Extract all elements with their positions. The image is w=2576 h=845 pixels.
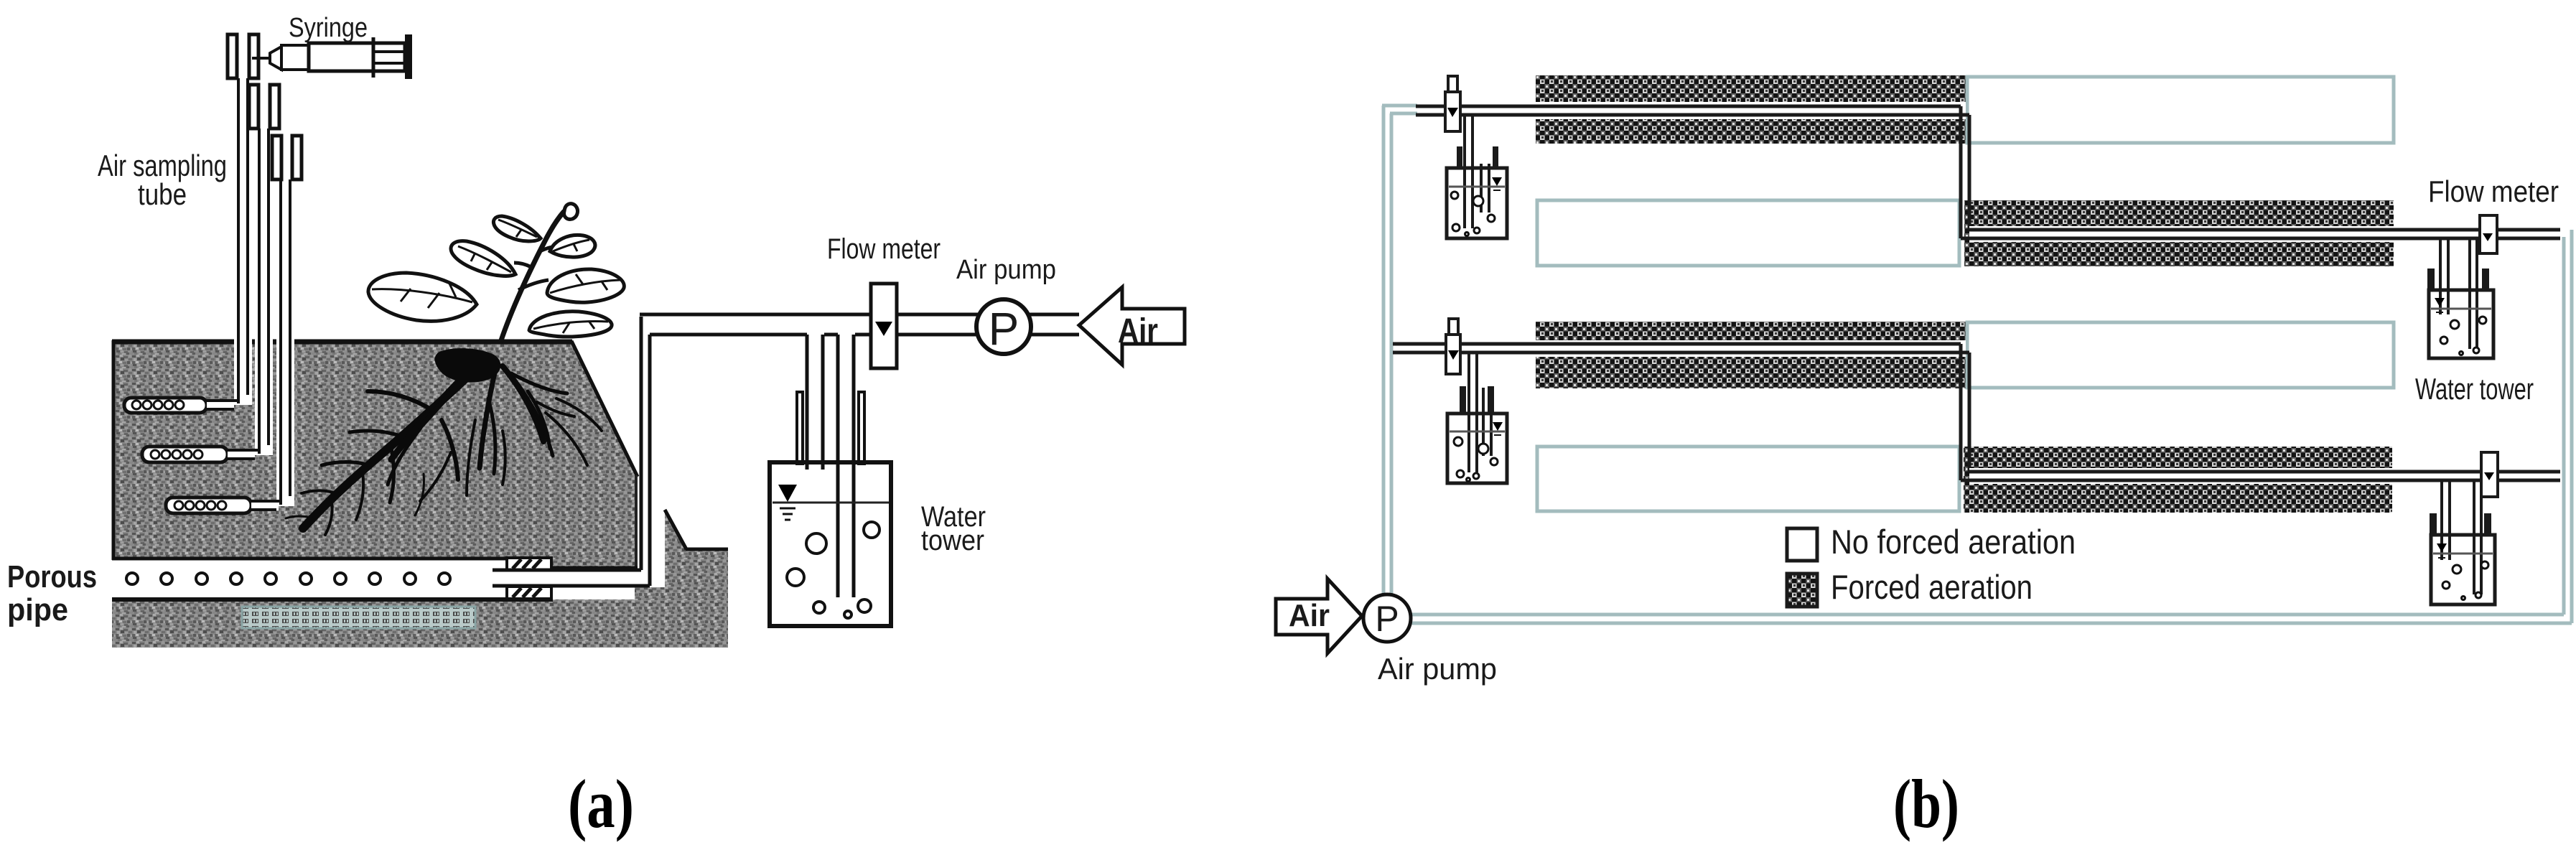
svg-text:Air pump: Air pump xyxy=(1378,652,1497,686)
air inlet arrow (b) xyxy=(1276,579,1362,653)
teal manifold left vertical xyxy=(1383,106,1391,595)
svg-text:Air pump: Air pump xyxy=(956,255,1056,285)
air pump (a) xyxy=(976,299,1031,355)
lower soil band with right block xyxy=(112,510,728,648)
sampling probe 3 xyxy=(166,498,281,513)
svg-text:(b): (b) xyxy=(1893,765,1959,842)
water tower 2 xyxy=(2429,290,2493,358)
tower3 bubbles xyxy=(1454,437,1498,482)
air sampling tube 2 walls xyxy=(259,129,269,454)
roots xyxy=(286,363,602,535)
svg-text:P: P xyxy=(1375,599,1399,639)
water tower neck collars (a) xyxy=(797,392,864,464)
svg-text:Flow meter: Flow meter xyxy=(2428,174,2559,208)
leaf second left xyxy=(451,241,515,276)
buried porous pipe (teal hatched) xyxy=(242,607,475,628)
svg-text:Syringe: Syringe xyxy=(289,13,368,43)
svg-text:Air: Air xyxy=(1289,598,1330,633)
air pump (b) xyxy=(1363,594,1411,642)
teal manifold bottom horizontal xyxy=(1411,615,2572,623)
threaded fitting lower xyxy=(507,587,551,599)
riser pipe walls xyxy=(641,317,650,586)
row3 pipe white underlay xyxy=(1536,340,1966,357)
legend no forced aeration xyxy=(1787,523,2076,561)
tube 1 cap xyxy=(228,34,258,78)
soil mound xyxy=(112,340,638,568)
outlet pipe from porous pipe (horizontal walls) xyxy=(493,570,650,586)
svg-text:tower: tower xyxy=(921,525,984,556)
air sampling tube 1 (white halo) xyxy=(234,78,252,405)
svg-text:Flow meter: Flow meter xyxy=(827,233,941,265)
tube 2 cap xyxy=(249,85,279,129)
leaf upper right xyxy=(550,235,595,257)
tube 3 cap xyxy=(272,136,302,179)
tube drop deep into water tower xyxy=(838,335,854,597)
flow meter 1 (b) xyxy=(2480,215,2497,253)
teal manifold top-left corner xyxy=(1382,106,1417,113)
row2 pipe xyxy=(1961,230,2560,238)
flow meter 2 (b) xyxy=(2481,452,2498,497)
svg-text:Porous: Porous xyxy=(7,559,97,594)
svg-text:P: P xyxy=(989,303,1019,355)
tower3 collars xyxy=(1460,386,1494,414)
svg-text:No forced aeration: No forced aeration xyxy=(1831,523,2076,561)
svg-text:tube: tube xyxy=(138,177,187,211)
row4 pipe white underlay xyxy=(1969,468,2392,484)
tower2 bubbles xyxy=(2440,317,2486,355)
tower2 collars xyxy=(2427,269,2489,290)
bed row2 forced aeration (right) xyxy=(1964,200,2394,266)
row1 pipe xyxy=(1416,106,1969,115)
air sampling tube 2 (white halo) xyxy=(255,129,273,455)
main horizontal pipe to pump xyxy=(640,314,1079,335)
row4 pipe xyxy=(1961,472,2560,480)
tower1 collars xyxy=(1457,146,1498,169)
bed row3 forced aeration (left) xyxy=(1536,322,1966,388)
plant stem xyxy=(500,211,564,342)
porous pipe white band holes xyxy=(126,573,450,584)
air sampling tube 3 (white halo) xyxy=(276,179,294,506)
air sampling tube 3 walls xyxy=(281,179,290,505)
svg-text:Water tower: Water tower xyxy=(2415,372,2534,406)
syringe xyxy=(252,34,412,79)
sampling probe 2 xyxy=(142,447,259,462)
threaded fitting upper xyxy=(507,558,551,570)
tower1 drop tube xyxy=(1465,115,1489,228)
bed row3 no aeration (right) xyxy=(1967,322,2394,388)
tower4 drop tube xyxy=(2442,480,2481,594)
leaf big right xyxy=(547,269,624,302)
svg-text:Forced aeration: Forced aeration xyxy=(1831,568,2033,606)
step down row1-row2 xyxy=(1961,106,1969,238)
leaf lower right xyxy=(529,312,612,337)
tower1 bubbles xyxy=(1451,192,1495,236)
tower2 drop tube xyxy=(2440,238,2477,349)
air inlet arrow (a) xyxy=(1079,287,1185,365)
root crown xyxy=(435,348,501,383)
svg-text:(a): (a) xyxy=(568,765,634,842)
sampling probe 1 xyxy=(124,398,238,413)
bed row2 no aeration (left) xyxy=(1537,200,1959,266)
teal manifold right vertical xyxy=(2564,230,2572,623)
bed row4 no aeration (left) xyxy=(1537,447,1959,511)
plant bud xyxy=(564,204,578,220)
leaf big left xyxy=(368,273,477,321)
water tower 4 xyxy=(2431,535,2495,604)
tube drop short into water tower xyxy=(807,335,823,470)
row2 pipe white underlay xyxy=(1969,226,2394,242)
water tower 3 xyxy=(1447,414,1507,483)
bed row1 forced aeration (left) xyxy=(1536,75,1966,144)
valve row1 xyxy=(1445,76,1460,131)
svg-text:pipe: pipe xyxy=(7,592,68,627)
flow meter (a) xyxy=(871,284,897,368)
svg-text:Air: Air xyxy=(1118,312,1158,350)
bed row1 no aeration (right) xyxy=(1967,77,2394,143)
row1 pipe white underlay xyxy=(1536,102,1966,119)
legend forced aeration xyxy=(1787,568,2033,607)
tower4 bubbles xyxy=(2442,561,2488,600)
bed row4 forced aeration (right) xyxy=(1964,447,2392,513)
tower4 collars xyxy=(2430,513,2491,535)
water tower (a) xyxy=(770,462,891,626)
leaf top small xyxy=(493,216,541,241)
air sampling tube 1 walls xyxy=(238,78,248,403)
tower3 drop tube xyxy=(1469,353,1491,472)
valve row3 xyxy=(1446,319,1460,374)
water tower 1 xyxy=(1447,168,1507,238)
step down row3-row4 xyxy=(1961,344,1969,480)
row3 pipe xyxy=(1393,344,1969,353)
bubbles in water tower (a) xyxy=(787,522,879,618)
